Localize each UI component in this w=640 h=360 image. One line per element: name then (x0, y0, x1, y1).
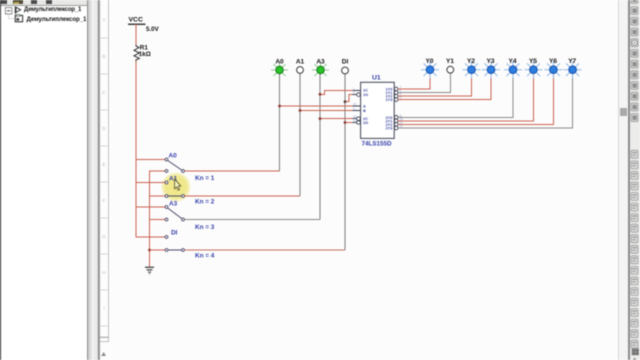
wire stub VCC bus to switch A0 throw (136, 159, 165, 161)
svg-text:Kn = 4: Kn = 4 (195, 253, 215, 260)
svg-text:Kn = 2: Kn = 2 (195, 199, 215, 206)
wire 1Y1 to probe Y1 (398, 74, 450, 93)
wire VCC to R1 (135, 24, 137, 45)
probe Y5 (lit blue) (525, 61, 543, 78)
junction node A3 upper (319, 93, 322, 96)
probe A1 (off) (297, 67, 304, 74)
probe Y2 (lit blue) (463, 61, 481, 78)
junction node DI upper (344, 100, 347, 103)
svg-text:Y0: Y0 (426, 58, 434, 65)
svg-text:B: B (363, 108, 366, 113)
svg-text:14: 14 (353, 119, 357, 123)
wire 2Y0 to probe Y4 (398, 74, 513, 118)
svg-text:2: 2 (353, 91, 355, 95)
probe Y1 (off) (447, 66, 454, 73)
svg-text:Y4: Y4 (509, 58, 517, 65)
wire Kn2 switch to node A1 (185, 195, 301, 197)
pin B stub (353, 110, 361, 112)
probe Y4 (lit blue) (504, 61, 522, 78)
wire Kn3 switch to node A3 (185, 219, 321, 221)
wire 1Y0 to probe Y0 (398, 74, 430, 90)
svg-text:1G: 1G (363, 92, 368, 97)
left black window edge (0, 0, 1, 360)
ground (145, 267, 154, 274)
partial toolbar at top of panel (1, 0, 87, 5)
svg-text:A1: A1 (296, 58, 305, 65)
wire 2Y1 to probe Y5 (398, 74, 533, 121)
tree rows (0, 0, 88, 40)
right output bubbles and stubs (394, 87, 402, 130)
probe Y7 (lit blue) (564, 61, 582, 78)
svg-text:Y2: Y2 (467, 58, 475, 65)
pin 2G stub with bubble (353, 122, 357, 124)
svg-text:Y1: Y1 (446, 58, 454, 65)
svg-text:A3: A3 (316, 58, 325, 65)
svg-text:A3: A3 (169, 200, 178, 207)
wire stub ground bus to switch A3 (150, 219, 166, 221)
svg-text:DI: DI (342, 58, 349, 65)
pin name labels (363, 88, 368, 125)
probe A0 (lit green) (271, 62, 288, 76)
probe Y6 (lit blue) (545, 61, 563, 78)
svg-text:VCC: VCC (129, 17, 143, 24)
sheet border column with row letters (99, 0, 111, 360)
pin 1C stub (353, 89, 361, 91)
switch J1 (A0 / Kn = 1) (165, 158, 184, 172)
junction node A3 lower (319, 117, 322, 120)
mouse cursor (175, 179, 181, 190)
wire probe A0 vertical (279, 74, 281, 172)
wire stub VCC bus to switch A1 throw (136, 182, 165, 184)
pin 2C stub with bubble (353, 118, 357, 120)
wire ground bus (150, 171, 166, 267)
junction node A0 (278, 105, 281, 108)
panel right edge (87, 0, 88, 360)
junction node DI lower (344, 121, 347, 124)
wire Kn1 switch to node A0 (185, 170, 280, 172)
wire probe DI vertical (344, 74, 346, 251)
svg-text:13: 13 (353, 102, 357, 106)
resistor R1 (134, 45, 139, 61)
wire probe A3 vertical (319, 74, 321, 220)
wire stub ground bus to switch DI (150, 249, 166, 251)
op IC U1 74LS155D (353, 82, 404, 138)
switch J4 (DI / Kn = 4) (165, 236, 184, 252)
wire node DI to pin 1G (345, 95, 356, 102)
splitter strip (88, 0, 99, 360)
wire node DI to pin 2G (345, 122, 356, 124)
svg-text:Y3: Y3 (487, 58, 495, 65)
svg-text:2G: 2G (363, 120, 368, 125)
junction node A1 (299, 109, 302, 112)
svg-text:Kn = 1: Kn = 1 (195, 175, 215, 182)
svg-text:1Y3: 1Y3 (385, 97, 393, 102)
svg-text:U1: U1 (372, 75, 381, 82)
svg-text:1kΩ: 1kΩ (139, 51, 151, 58)
svg-text:5.0V: 5.0V (146, 26, 160, 33)
pin 1G stub with bubble (353, 94, 357, 96)
wire node A3 to pin 2C (320, 118, 356, 120)
probe Y0 (lit blue) (421, 61, 439, 78)
svg-text:Y7: Y7 (568, 58, 576, 65)
probe Y3 (lit blue) (482, 61, 500, 78)
wire Kn4 switch to node DI (185, 249, 346, 251)
probe DI (off) (342, 67, 349, 74)
wire probe A1 vertical (299, 74, 301, 197)
right scrollbar (618, 0, 619, 360)
svg-text:3: 3 (353, 107, 355, 111)
probe A3 (lit green) (312, 62, 329, 76)
right instruments toolbar (630, 0, 640, 360)
wire 1Y3 to probe Y3 (398, 74, 491, 100)
wire node A1 to pin B (300, 110, 353, 112)
wire 2Y2 to probe Y6 (398, 74, 553, 125)
svg-text:Y6: Y6 (549, 58, 557, 65)
svg-text:Kn = 3: Kn = 3 (195, 224, 215, 231)
wire stub VCC bus to switch A3 throw (136, 206, 165, 208)
label R1 1kΩ (139, 44, 151, 58)
pin numbers (353, 85, 403, 128)
pin A stub (353, 105, 361, 107)
wire 2Y3 to probe Y7 (398, 74, 572, 129)
svg-text:A0: A0 (169, 153, 178, 160)
svg-text:Y5: Y5 (529, 58, 537, 65)
svg-text:74LS155D: 74LS155D (362, 140, 393, 147)
wire node A3 to pin 1C (320, 90, 353, 94)
wire VCC bus (R1 down the left side) (136, 61, 165, 237)
svg-text:A0: A0 (275, 58, 284, 65)
switch J2 (A1 / Kn = 2) (165, 181, 184, 197)
wire stub ground bus to switch A1 (150, 195, 166, 197)
power net VCC symbol (128, 17, 146, 25)
design toolbox panel (1, 0, 87, 360)
wire node A0 to pin A (280, 105, 353, 107)
svg-text:DI: DI (171, 230, 178, 237)
junction on ground bus (148, 249, 151, 252)
selection highlight around switch A1 (161, 172, 192, 203)
wire 1Y2 to probe Y2 (398, 74, 471, 97)
svg-text:2Y3: 2Y3 (385, 126, 393, 131)
switch J3 (A3 / Kn = 3) (165, 206, 184, 221)
